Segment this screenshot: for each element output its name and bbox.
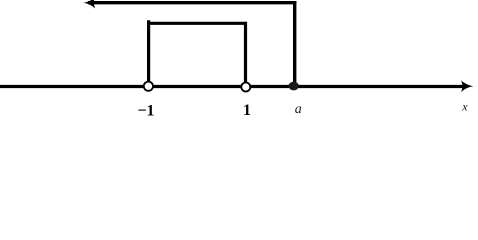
vertical wire from top arrow down to point a xyxy=(293,1,296,86)
x-axis right arrowhead xyxy=(461,80,473,92)
number line (x-axis) xyxy=(0,85,466,88)
svg-text:x: x xyxy=(461,99,468,113)
svg-text:1: 1 xyxy=(243,102,251,119)
interval box top horizontal line xyxy=(147,22,247,25)
svg-text:a: a xyxy=(295,102,302,117)
interval box right vertical line at 1 xyxy=(244,22,247,86)
svg-text:−1: −1 xyxy=(137,102,154,119)
interval box left vertical line at -1 xyxy=(147,20,150,86)
open circle at -1 xyxy=(144,82,153,91)
open circle at 1 xyxy=(241,83,250,92)
filled dot at a xyxy=(289,82,299,91)
top arrow left arrowhead xyxy=(83,0,95,8)
top arrow horizontal line xyxy=(88,1,296,4)
